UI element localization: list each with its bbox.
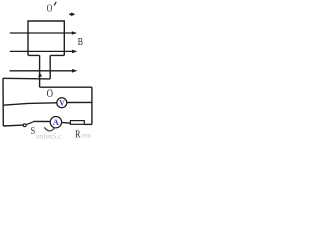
svg-text:R: R <box>75 129 81 140</box>
wire resistor to right edge <box>84 123 92 125</box>
current arrow up on left wall <box>38 73 42 77</box>
voltmeter V <box>57 98 67 108</box>
resistor R box <box>70 121 84 125</box>
wire circuit top <box>3 77 50 80</box>
wire ammeter to resistor <box>62 121 71 124</box>
stray arc mark <box>44 127 54 131</box>
svg-text:om: om <box>82 131 92 140</box>
switch S pivot <box>23 124 26 127</box>
svg-text:V: V <box>59 98 65 107</box>
wire short arrow top right <box>69 13 72 15</box>
svg-text:anfen5.c: anfen5.c <box>36 132 62 140</box>
switch S blade <box>26 122 33 125</box>
container box (open bottom gap) <box>28 21 64 55</box>
node O' prime tick <box>54 2 56 6</box>
field line B2 <box>10 50 73 52</box>
wire circuit right edge <box>91 87 93 124</box>
wire tube to right edge <box>40 86 92 88</box>
wire bottom left <box>3 124 23 127</box>
background <box>0 0 95 140</box>
wire switch to ammeter <box>33 120 50 122</box>
field line B3 <box>10 70 73 72</box>
field line B1 <box>10 32 73 34</box>
svg-text:S: S <box>30 126 35 137</box>
tube right wall wire <box>49 55 51 79</box>
svg-text:O: O <box>47 86 54 100</box>
svg-text:O: O <box>47 3 53 14</box>
ammeter A <box>50 117 61 128</box>
wire voltmeter branch left <box>3 103 57 105</box>
svg-text:A: A <box>53 117 60 127</box>
wire circuit left edge <box>2 78 4 126</box>
svg-text:B: B <box>78 36 83 48</box>
tube left wall wire <box>39 55 41 87</box>
wire voltmeter branch right <box>67 101 92 103</box>
